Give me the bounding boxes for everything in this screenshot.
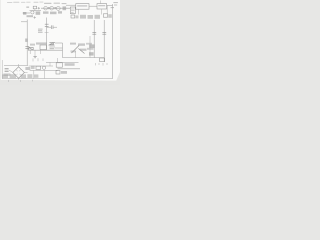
component row group5 <box>103 14 111 18</box>
stub wire <box>40 49 42 54</box>
bridge top wire <box>18 64 20 67</box>
paper left scan edge <box>0 0 1 80</box>
component row group2 <box>80 15 86 19</box>
right drop wire <box>62 43 64 58</box>
component row group3 <box>88 15 94 19</box>
label BC2 <box>65 63 75 66</box>
tick on left rail <box>21 21 27 23</box>
middle band labels 2 <box>30 44 35 46</box>
IC U3 <box>97 4 107 9</box>
paper sheet <box>0 0 120 81</box>
junction tick <box>45 32 49 34</box>
label mark A0 <box>26 6 29 8</box>
motor M1 <box>42 66 45 69</box>
corner marks top-right <box>111 2 118 8</box>
node plus mark <box>38 7 40 9</box>
right comp RC1 <box>89 44 95 48</box>
wire to U2 <box>66 4 76 6</box>
wire <box>55 47 63 49</box>
capacitor C3 <box>51 25 53 29</box>
title handwriting <box>7 2 44 3</box>
bus wire middle <box>28 49 63 51</box>
diode D2 <box>49 43 55 45</box>
component smudge A2 <box>36 11 41 14</box>
drop wire <box>33 70 35 78</box>
U2 inner text <box>77 5 87 6</box>
label smudge B2 <box>50 12 57 15</box>
bottom row text cluster 5 <box>34 74 38 77</box>
IC U1 small <box>70 7 75 14</box>
component X1 <box>29 47 34 50</box>
component row group4 <box>95 15 101 19</box>
transistor Q4 <box>56 6 60 10</box>
wire U3 to border <box>107 4 113 6</box>
transistor Q3 <box>50 6 54 10</box>
bottom row text cluster 4 <box>27 74 32 78</box>
wire above U3 <box>100 1 102 4</box>
center rail wire <box>46 18 48 51</box>
drop tick 1 <box>33 58 43 61</box>
lower bus right <box>58 68 81 70</box>
wire cap to right <box>47 26 51 28</box>
bridge rectifier BR1 <box>13 67 25 78</box>
AC label <box>25 67 30 70</box>
bottom-center bus lower <box>30 69 58 71</box>
label smudge B3 <box>58 11 62 13</box>
resistor R1 <box>33 6 36 9</box>
right comp RC2 <box>89 52 94 55</box>
wire <box>53 26 57 28</box>
box BC3 <box>56 71 60 74</box>
right rail 2 cap <box>102 32 106 34</box>
amp cluster labels <box>70 43 76 45</box>
wire down right <box>106 5 108 14</box>
component row under top: group1 <box>71 15 79 18</box>
stub wire <box>34 50 36 56</box>
right rail 1 <box>93 20 95 58</box>
smudge BC0 <box>31 66 35 69</box>
resistor R2 <box>48 7 50 9</box>
resistor R3 <box>54 7 56 9</box>
border bottom <box>2 78 113 80</box>
stub wire <box>29 50 31 54</box>
middle band labels <box>36 42 47 44</box>
bottom-center bus upper <box>29 65 53 67</box>
ticks below border <box>9 80 33 82</box>
label BC3 <box>61 71 67 74</box>
amp stub <box>75 51 77 58</box>
wire <box>55 42 63 44</box>
wire bus cluster A <box>23 12 31 14</box>
wire J1 to bridge <box>9 70 13 72</box>
wire <box>30 10 42 12</box>
wire down from U2 <box>78 9 80 14</box>
U3 inner text <box>98 5 105 6</box>
bottom row text cluster 1 <box>2 74 8 78</box>
wire upper right <box>46 61 79 63</box>
amp cluster labels3 <box>86 43 92 45</box>
border left (bottom part) <box>1 60 3 79</box>
capacitor C1 on rail <box>25 46 29 48</box>
middle band labels 3 <box>49 44 55 46</box>
amp cluster labels2 <box>78 43 85 45</box>
amp cluster labels4 <box>71 50 77 52</box>
label smudge A3 <box>27 15 34 17</box>
component smudge A1 <box>23 12 26 15</box>
wire down from U3 <box>101 9 103 15</box>
long bottom bus <box>63 57 105 59</box>
bridge diode mark <box>16 69 21 75</box>
connector J1 <box>5 68 9 71</box>
transistor Q6 diagonal <box>79 49 85 54</box>
IC U2 <box>76 4 89 10</box>
wire stub <box>56 58 58 63</box>
drop wire <box>43 70 45 78</box>
border right <box>112 4 114 79</box>
plus mark <box>33 16 36 19</box>
label smudge B1 <box>43 11 49 13</box>
capacitor C2 <box>45 24 49 26</box>
component D1 <box>63 6 67 10</box>
diode D3 <box>49 47 55 49</box>
text block note1 <box>38 29 43 33</box>
node B label <box>25 39 28 42</box>
transistor Q1 <box>31 11 34 14</box>
amp cluster labels5 <box>87 48 94 50</box>
right rail 1 cap <box>92 32 96 34</box>
connector label <box>3 73 10 76</box>
wire bus cluster B <box>41 7 71 9</box>
box BC2 <box>56 63 62 67</box>
wire U2 to U3 <box>89 5 97 7</box>
bridge bottom wire <box>18 78 20 79</box>
bridge right wire <box>24 72 27 74</box>
bottom row text cluster 3 <box>21 74 26 78</box>
relay box K1 <box>40 45 46 49</box>
U1 inner marks <box>71 9 75 12</box>
amp label <box>80 49 87 51</box>
ground <box>33 57 36 58</box>
tick marks above long bus right <box>96 63 108 66</box>
label row above B <box>44 3 67 5</box>
right rail 2 <box>103 20 105 62</box>
right comp RC3 <box>100 58 105 62</box>
right rail 3 <box>89 36 91 58</box>
box BC1 <box>36 66 41 69</box>
stub wire <box>34 9 36 11</box>
left rail wire <box>26 20 28 66</box>
riser wire <box>49 62 51 66</box>
bottom-left feed wire <box>4 65 28 67</box>
transistor Q2 <box>44 6 48 10</box>
bottom row text cluster 2 <box>10 74 16 78</box>
transistor Q5 diagonal <box>72 46 80 54</box>
scanner background <box>0 0 120 85</box>
